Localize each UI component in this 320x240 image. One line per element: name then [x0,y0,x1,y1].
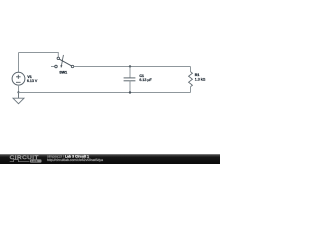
junction capacitor bottom [129,91,131,93]
wire left rail V1 top [18,53,20,73]
label V1 [27,75,31,79]
voltage source V1 [12,72,25,85]
svg-text:LAB: LAB [31,160,38,163]
wire right rail bottom [190,87,192,93]
label R1 [195,73,200,77]
wire right rail top [190,67,192,72]
capacitor C1 [124,67,136,93]
label SW1 [59,71,67,75]
CircuitLab logo [10,155,42,163]
wire top rail [74,66,191,68]
svg-text:1.3 kΩ: 1.3 kΩ [195,78,206,82]
wire top-left from V1 to SW1 [19,53,59,58]
svg-text:6.13 V: 6.13 V [27,79,38,83]
footer title text [47,154,89,158]
ground [13,93,24,104]
switch SW1 [51,55,74,68]
label C1 [139,74,144,78]
label C1 value [139,78,152,82]
label V1 value [27,79,38,83]
svg-text:6.13 µF: 6.13 µF [139,78,152,82]
footer url text [47,158,103,162]
resistor R1 [189,72,193,87]
junction bottom of V1 [17,91,19,93]
wire bottom rail [19,92,191,94]
label R1 value [195,78,206,82]
svg-text:SW1: SW1 [59,71,67,75]
wire V1 bottom [18,85,20,93]
svg-text:http://circuitlab.com/c/e62v59: http://circuitlab.com/c/e62v59nat5dya [47,158,103,162]
junction capacitor top [129,65,131,67]
